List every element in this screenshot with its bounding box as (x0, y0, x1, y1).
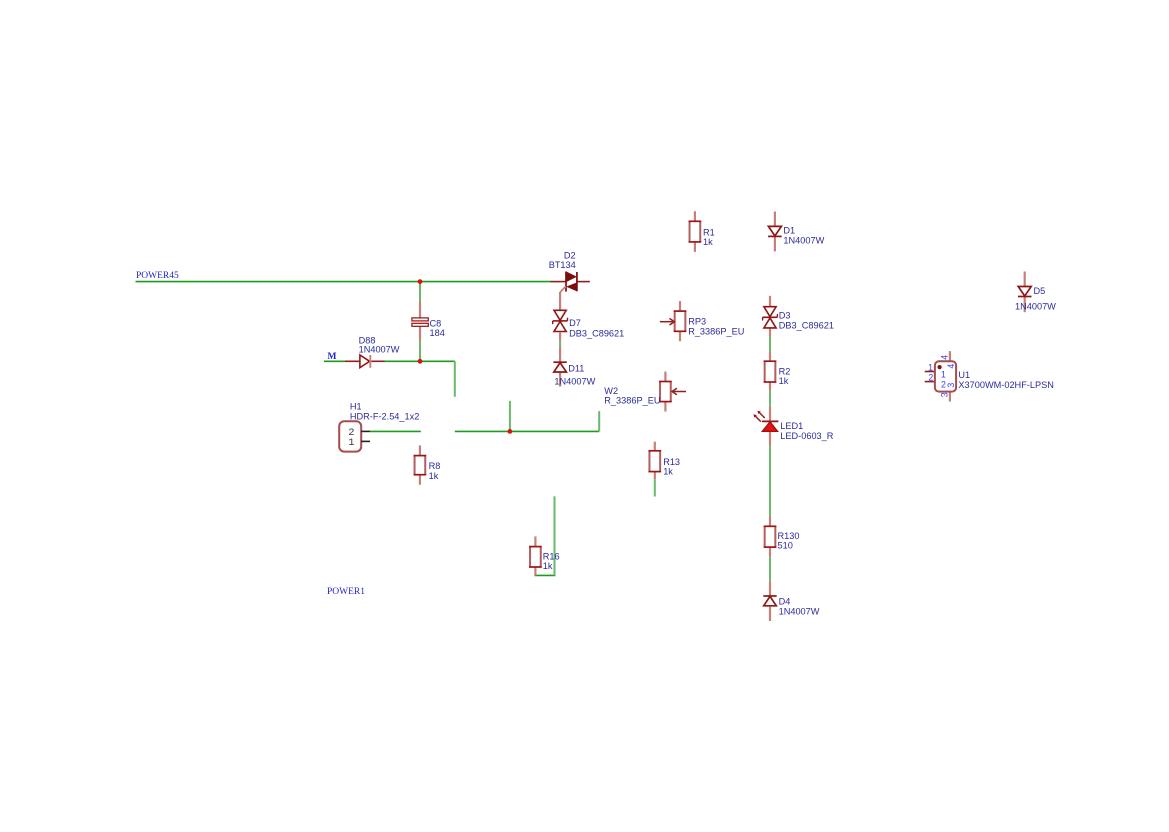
svg-text:BT134: BT134 (549, 260, 576, 270)
svg-text:DB3_C89621: DB3_C89621 (569, 328, 624, 338)
svg-text:D1: D1 (783, 226, 795, 236)
svg-text:DB3_C89621: DB3_C89621 (779, 321, 834, 331)
svg-text:D11: D11 (568, 364, 584, 374)
svg-text:1k: 1k (429, 471, 439, 481)
svg-text:1: 1 (928, 363, 933, 373)
svg-text:1N4007W: 1N4007W (1015, 301, 1056, 311)
svg-text:POWER45: POWER45 (136, 271, 179, 281)
svg-text:R130: R130 (778, 531, 800, 541)
svg-text:LED-0603_R: LED-0603_R (780, 431, 833, 441)
svg-text:D4: D4 (779, 597, 791, 607)
svg-text:R16: R16 (543, 551, 560, 561)
svg-text:R1: R1 (703, 228, 715, 238)
svg-text:R_3386P_EU: R_3386P_EU (604, 396, 660, 406)
svg-text:184: 184 (430, 328, 445, 338)
svg-text:3: 3 (940, 392, 950, 397)
svg-text:510: 510 (778, 541, 793, 551)
svg-text:R8: R8 (429, 461, 441, 471)
svg-text:RP3: RP3 (688, 316, 706, 326)
svg-text:3: 3 (946, 383, 956, 388)
svg-text:1k: 1k (779, 376, 789, 386)
svg-text:4: 4 (940, 355, 950, 360)
svg-text:LED1: LED1 (780, 421, 803, 431)
svg-text:HDR-F-2.54_1x2: HDR-F-2.54_1x2 (350, 411, 419, 421)
svg-text:1N4007W: 1N4007W (783, 235, 824, 245)
svg-text:1k: 1k (703, 237, 713, 247)
svg-text:U1: U1 (958, 370, 970, 380)
svg-text:X3700WM-02HF-LPSN: X3700WM-02HF-LPSN (958, 380, 1053, 390)
svg-text:1: 1 (348, 437, 354, 449)
svg-text:1k: 1k (663, 467, 673, 477)
svg-text:D3: D3 (779, 311, 791, 321)
svg-text:1N4007W: 1N4007W (554, 376, 595, 386)
svg-text:1N4007W: 1N4007W (779, 606, 820, 616)
svg-text:C8: C8 (430, 318, 442, 328)
svg-text:POWER1: POWER1 (327, 587, 365, 597)
svg-text:1: 1 (941, 369, 946, 379)
svg-text:1k: 1k (543, 561, 553, 571)
svg-text:D2: D2 (564, 250, 576, 260)
svg-text:R2: R2 (779, 367, 791, 377)
svg-text:H1: H1 (350, 402, 362, 412)
svg-text:D7: D7 (569, 318, 581, 328)
svg-text:R_3386P_EU: R_3386P_EU (688, 326, 744, 336)
svg-text:4: 4 (946, 364, 956, 369)
svg-text:R13: R13 (663, 457, 680, 467)
svg-text:2: 2 (928, 372, 933, 382)
svg-text:D5: D5 (1034, 286, 1046, 296)
svg-text:1N4007W: 1N4007W (359, 345, 400, 355)
